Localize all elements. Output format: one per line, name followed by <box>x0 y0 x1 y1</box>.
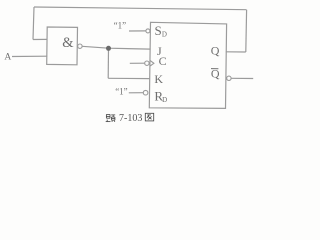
svg-text:K: K <box>154 72 163 86</box>
nand gate U1 box <box>47 27 78 65</box>
caption CJK char ti <box>106 114 116 121</box>
wire junction vertical drop <box>107 48 109 78</box>
junction node dot <box>106 46 111 51</box>
svg-text:7-103: 7-103 <box>119 113 142 124</box>
Qbar output bubble <box>227 76 231 80</box>
svg-text:“1”: “1” <box>114 21 127 31</box>
caption CJK char tu <box>145 113 153 121</box>
Qbar overline <box>211 68 218 70</box>
svg-text:“1”: “1” <box>115 86 128 96</box>
wire Qbar output <box>231 77 253 79</box>
wire NAND output to J <box>82 46 151 49</box>
wire SD stub from "1" <box>129 30 146 32</box>
SD input bubble <box>146 29 150 33</box>
svg-text:D: D <box>162 96 167 104</box>
svg-text:A: A <box>4 52 11 62</box>
wire left feedback vertical <box>33 7 34 40</box>
svg-text:S: S <box>155 23 162 38</box>
wire into AND gate top input <box>33 38 47 40</box>
C clock input bubble <box>145 61 149 65</box>
wire to K input <box>108 77 150 79</box>
svg-text:&: & <box>62 35 74 51</box>
RD input bubble <box>143 90 148 95</box>
wire right feedback vertical <box>245 10 248 52</box>
C dynamic edge triangle <box>150 61 154 66</box>
wire top feedback rail <box>34 7 247 10</box>
svg-text:C: C <box>159 54 167 68</box>
wire RD stub from "1" <box>129 92 144 94</box>
flip-flop U2 box <box>149 22 226 108</box>
nand gate U1 output bubble <box>78 44 82 48</box>
wire Q output <box>226 51 246 53</box>
wire A input <box>12 55 47 57</box>
wire C clock stub <box>130 62 145 64</box>
svg-text:D: D <box>162 31 167 39</box>
svg-text:Q: Q <box>211 44 220 58</box>
